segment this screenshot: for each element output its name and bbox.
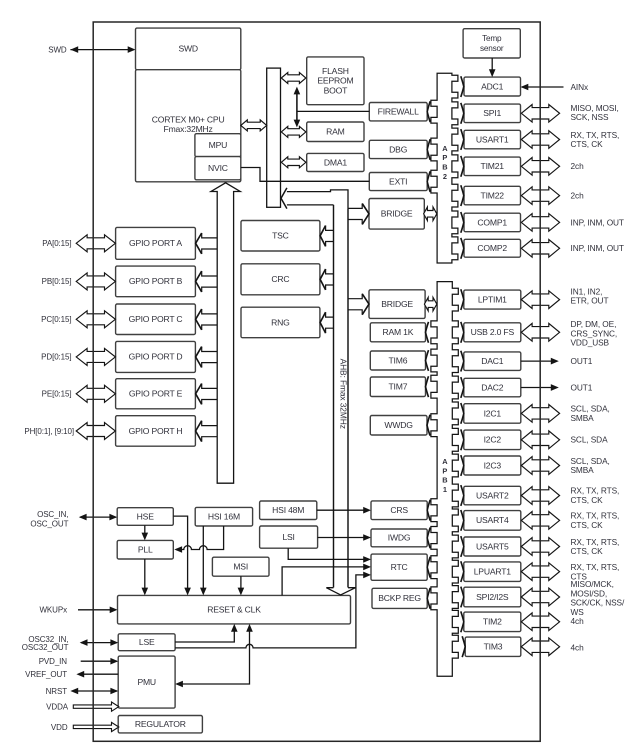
block RTC: [371, 554, 427, 580]
block HSE: [117, 508, 173, 526]
connector IWDG: [427, 528, 430, 549]
label PH[0:1], [9:10]: [24, 427, 74, 436]
wire AHB right wall: [347, 208, 349, 587]
svg-text:TSC: TSC: [272, 231, 289, 241]
svg-text:PA[0:15]: PA[0:15]: [42, 239, 71, 248]
label USART5 pins: [571, 537, 620, 556]
svg-text:DMA1: DMA1: [324, 157, 347, 167]
connector WWDG: [427, 415, 430, 436]
svg-text:2ch: 2ch: [571, 191, 585, 201]
AHB arrow into RESET & CLK: [326, 588, 355, 595]
wire FIREWALL to bus: [297, 110, 369, 112]
svg-text:LSI: LSI: [282, 532, 294, 542]
svg-text:PMU: PMU: [137, 677, 156, 687]
svg-text:PH[0:1], [9:10]: PH[0:1], [9:10]: [24, 427, 74, 436]
connector BCKP REG: [427, 588, 430, 609]
block USART1: [464, 130, 521, 149]
svg-text:GPIO PORT D: GPIO PORT D: [129, 352, 183, 362]
wire HSE to PLL: [142, 525, 149, 540]
block Temp sensor: [463, 29, 520, 58]
svg-text:OUT1: OUT1: [571, 356, 593, 366]
connector DAC1: [461, 351, 464, 372]
bus arrow TIM2 pins: [521, 613, 559, 631]
svg-text:TIM21: TIM21: [481, 161, 505, 171]
svg-text:MPU: MPU: [209, 140, 228, 150]
bus matrix chevron: [281, 188, 287, 209]
svg-text:USART5: USART5: [476, 541, 509, 551]
block RESET & CLK: [118, 595, 351, 624]
GPIO bus arrow into CPU: [211, 183, 240, 483]
connector CRS: [427, 500, 430, 521]
svg-text:HSI 16M: HSI 16M: [208, 512, 240, 522]
svg-text:GPIO PORT H: GPIO PORT H: [129, 426, 183, 436]
svg-text:SCK, NSS: SCK, NSS: [571, 112, 609, 122]
svg-text:ETR, OUT: ETR, OUT: [571, 296, 609, 306]
svg-text:INP, INM, OUT: INP, INM, OUT: [571, 217, 624, 227]
block SPI1: [464, 104, 521, 123]
label COMP1 pins: [571, 217, 624, 227]
block USART4: [464, 511, 521, 531]
block LPTIM1: [464, 290, 521, 309]
block PMU: [118, 656, 175, 708]
label VDDA: [46, 703, 69, 712]
wire Temp sensor to ADC1: [489, 58, 496, 77]
bus arrow BRIDGE to APB2: [424, 207, 437, 221]
svg-text:MSI: MSI: [233, 562, 248, 572]
bus arrow USART2 pins: [521, 487, 559, 505]
svg-text:USART2: USART2: [476, 490, 509, 500]
svg-text:CTS, CK: CTS, CK: [571, 546, 604, 556]
bus arrow TIM3 pins: [521, 638, 559, 656]
bus arrow USB pins: [521, 323, 559, 341]
block PLL: [117, 540, 173, 559]
svg-text:BOOT: BOOT: [324, 85, 349, 95]
svg-text:RTC: RTC: [391, 562, 408, 572]
label SPI1 pins: [571, 103, 619, 122]
connector SPI2/I2S: [461, 587, 464, 608]
connector BRIDGE APB1 from AHB: [348, 294, 369, 315]
APB2 bus bar: [431, 73, 458, 263]
bus arrow USART1 pins: [521, 131, 559, 149]
svg-text:OSC32_OUT: OSC32_OUT: [22, 643, 69, 652]
block SWD: [136, 28, 241, 70]
label TIM3 pins: [571, 642, 585, 652]
svg-text:AINx: AINx: [571, 82, 590, 92]
label OSC32_IN OSC32_OUT: [22, 635, 69, 652]
svg-text:GPIO PORT A: GPIO PORT A: [129, 238, 182, 248]
bus arrow bus matrix to FLASH: [281, 73, 306, 84]
label OSC_IN OSC_OUT: [30, 510, 68, 529]
connector I2C3: [461, 455, 464, 476]
svg-text:SWD: SWD: [48, 45, 67, 54]
block USART2: [464, 486, 521, 505]
wire NVIC to EXTI: [241, 168, 369, 182]
connector EXTI: [427, 171, 430, 192]
wire VREF_OUT from PMU: [76, 671, 118, 678]
wire RESET & CLK to RTC: [282, 564, 371, 596]
svg-text:WWDG: WWDG: [384, 420, 413, 430]
label COMP2 pins: [571, 243, 624, 253]
svg-text:VDD: VDD: [51, 723, 68, 732]
bus arrow LPUART1 pins: [521, 563, 559, 581]
label DAC2 OUT1: [571, 382, 593, 392]
wire NRST to PMU: [70, 688, 118, 695]
label TIM2 pins: [571, 616, 585, 626]
svg-text:INP, INM, OUT: INP, INM, OUT: [571, 243, 624, 253]
VDDA supply arrow: [73, 702, 119, 711]
block TIM22: [464, 186, 521, 205]
label NRST: [46, 687, 68, 696]
wire AINx input to ADC1: [521, 84, 564, 91]
label LPUART1 pins: [571, 562, 620, 581]
svg-text:SCL, SDA: SCL, SDA: [571, 435, 609, 445]
bus arrow TIM22 pins: [521, 187, 559, 205]
svg-text:CORTEX M0+ CPU: CORTEX M0+ CPU: [152, 114, 225, 124]
label PB[0:15]: [42, 277, 72, 286]
block COMP2: [464, 239, 521, 257]
svg-text:2: 2: [443, 172, 447, 181]
bus arrow BRIDGE to APB1: [424, 297, 436, 311]
block RAM 1K: [370, 323, 425, 342]
wire HSI48M to CRS: [317, 507, 371, 514]
bus arrow bus matrix to DMA1: [281, 157, 306, 168]
block LSI: [260, 526, 318, 548]
connector TIM21: [461, 156, 464, 177]
bus arrow COMP2 pins: [521, 240, 559, 258]
label DAC1 OUT1: [571, 356, 593, 366]
bus arrow I2C3 pins: [521, 457, 559, 475]
svg-text:RAM 1K: RAM 1K: [383, 327, 414, 337]
bus arrow SPI1 pins: [521, 105, 559, 123]
svg-text:1: 1: [443, 485, 447, 494]
block GPIO PORT C: [116, 304, 196, 335]
bus arrow I2C2 pins: [521, 431, 559, 449]
svg-text:FLASH: FLASH: [322, 66, 349, 76]
label I2C2 pins: [571, 435, 609, 445]
label AINx: [571, 82, 590, 92]
block ADC1: [464, 77, 521, 96]
block CRS: [371, 501, 427, 520]
svg-text:BCKP REG: BCKP REG: [378, 593, 421, 603]
svg-text:NRST: NRST: [46, 687, 68, 696]
connector USART2: [461, 485, 464, 506]
svg-text:COMP1: COMP1: [477, 217, 507, 227]
connector TIM22: [461, 185, 464, 206]
block I2C3: [464, 456, 521, 475]
svg-text:SPI1: SPI1: [483, 108, 501, 118]
block MSI: [212, 557, 269, 576]
bus arrow GPIO port PD pins: [76, 348, 115, 365]
svg-text:DAC2: DAC2: [481, 382, 504, 392]
block HSI 16M: [195, 507, 252, 526]
svg-text:TIM22: TIM22: [481, 190, 505, 200]
block DMA1: [307, 153, 364, 171]
svg-text:RESET & CLK: RESET & CLK: [207, 605, 261, 615]
block NVIC: [195, 157, 241, 180]
block TIM3: [465, 637, 521, 656]
connector BRIDGE APB2 from AHB: [348, 204, 369, 225]
svg-text:TIM2: TIM2: [483, 617, 502, 627]
svg-text:PD[0:15]: PD[0:15]: [41, 353, 71, 362]
svg-text:LSE: LSE: [139, 637, 155, 647]
bus arrow GPIO port PC pins: [76, 311, 115, 328]
svg-text:VDD_USB: VDD_USB: [571, 338, 610, 348]
connector GPIO PORT B: [196, 271, 218, 292]
connector CRC: [320, 269, 333, 290]
block FLASH EEPROM BOOT: [307, 57, 364, 105]
svg-text:REGULATOR: REGULATOR: [135, 719, 186, 729]
block GPIO PORT B: [116, 266, 196, 297]
svg-text:OSC_IN,: OSC_IN,: [37, 510, 68, 519]
block WWDG: [370, 416, 427, 436]
svg-text:Temp: Temp: [482, 34, 502, 43]
block TSC: [241, 221, 320, 252]
svg-text:TIM6: TIM6: [389, 355, 408, 365]
wire bus matrix to AHB lower: [287, 204, 334, 206]
svg-text:TIM7: TIM7: [389, 382, 408, 392]
block BRIDGE APB2: [369, 199, 424, 230]
svg-text:USART1: USART1: [476, 134, 509, 144]
label PC[0:15]: [41, 315, 71, 324]
block HSI 48M: [260, 501, 317, 520]
connector TIM2: [461, 611, 464, 632]
connector TIM3: [462, 636, 465, 657]
svg-text:B: B: [442, 163, 447, 172]
bus arrow GPIO port PH pins: [76, 423, 115, 440]
bus arrow GPIO port PE pins: [76, 385, 115, 402]
label VDD: [51, 723, 68, 732]
svg-text:RAM: RAM: [326, 127, 345, 137]
svg-text:CTS, CK: CTS, CK: [571, 520, 604, 530]
svg-text:PVD_IN: PVD_IN: [39, 657, 68, 666]
wire LSE to RTC: [175, 572, 371, 648]
svg-text:EXTI: EXTI: [389, 176, 407, 186]
label TIM22 pins: [571, 191, 585, 201]
wire bus matrix to AHB upper: [287, 190, 348, 209]
bus arrow CPU to bus matrix: [241, 120, 267, 131]
svg-text:BRIDGE: BRIDGE: [381, 209, 413, 219]
block LPUART1: [464, 562, 521, 582]
svg-text:TIM3: TIM3: [484, 642, 503, 652]
block TIM21: [464, 157, 521, 176]
bus matrix bar: [267, 68, 281, 207]
svg-text:NVIC: NVIC: [208, 163, 228, 173]
block DBG: [369, 140, 427, 158]
block IWDG: [371, 529, 427, 547]
bus arrow bus matrix to RAM: [281, 126, 306, 137]
svg-text:IWDG: IWDG: [388, 533, 411, 543]
label PVD_IN: [39, 657, 68, 666]
svg-text:CTS, CK: CTS, CK: [571, 139, 604, 149]
wire LSE to RESET & CLK: [175, 624, 238, 642]
block I2C1: [464, 404, 521, 424]
svg-text:USB 2.0 FS: USB 2.0 FS: [471, 327, 515, 337]
connector USART4: [461, 510, 464, 531]
svg-text:VREF_OUT: VREF_OUT: [25, 670, 67, 679]
connector GPIO PORT H: [196, 421, 218, 442]
bus arrow LPTIM1 pins: [521, 291, 559, 309]
block USB 2.0 FS: [464, 323, 521, 342]
block MPU: [195, 134, 241, 157]
svg-text:PE[0:15]: PE[0:15]: [42, 390, 72, 399]
VDD supply arrow: [73, 722, 119, 731]
svg-text:DAC1: DAC1: [481, 356, 504, 366]
svg-text:FIREWALL: FIREWALL: [378, 107, 419, 117]
svg-text:GPIO PORT B: GPIO PORT B: [129, 276, 183, 286]
label SPI2/I2S pins: [571, 579, 625, 617]
wire HSI16M to PLL: [174, 526, 223, 553]
svg-text:SMBA: SMBA: [571, 465, 595, 475]
wire OSC32 to LSE: [80, 639, 119, 646]
svg-text:WKUPx: WKUPx: [39, 606, 67, 615]
block CRC: [241, 264, 320, 295]
svg-text:GPIO PORT C: GPIO PORT C: [129, 314, 183, 324]
svg-text:B: B: [442, 476, 447, 485]
connector USART1: [461, 129, 464, 150]
bus arrow COMP1 pins: [521, 214, 559, 232]
connector DBG: [427, 139, 430, 160]
block FIREWALL: [369, 103, 427, 121]
label PD[0:15]: [41, 353, 71, 362]
svg-text:4ch: 4ch: [571, 642, 585, 652]
label I2C1 pins: [571, 404, 610, 423]
svg-text:P: P: [442, 153, 447, 162]
bus arrow USART4 pins: [521, 512, 559, 530]
wire PMU to RESET & CLK: [175, 624, 253, 687]
svg-text:OSC_OUT: OSC_OUT: [30, 519, 68, 528]
svg-text:GPIO PORT E: GPIO PORT E: [129, 389, 183, 399]
block SPI2/I2S: [464, 587, 521, 607]
bus arrow USART5 pins: [521, 538, 559, 556]
block EXTI: [369, 173, 427, 191]
svg-text:CRS: CRS: [390, 505, 408, 515]
connector RAM 1K: [426, 322, 429, 343]
block BRIDGE APB1: [369, 290, 425, 319]
block RAM: [307, 122, 364, 142]
label LPTIM1 pins: [571, 286, 609, 305]
block TIM2: [464, 612, 521, 632]
svg-text:EEPROM: EEPROM: [317, 76, 353, 86]
svg-text:AHB: Fmax 32MHz: AHB: Fmax 32MHz: [338, 359, 348, 429]
svg-text:SMBA: SMBA: [571, 413, 595, 423]
connector LPUART1: [461, 561, 464, 582]
label PA[0:15]: [42, 239, 71, 248]
connector GPIO PORT E: [196, 384, 218, 405]
block GPIO PORT A: [116, 227, 196, 259]
svg-text:BRIDGE: BRIDGE: [381, 299, 413, 309]
block DAC1: [464, 352, 521, 371]
block RNG: [241, 307, 320, 338]
svg-text:PC[0:15]: PC[0:15]: [41, 315, 71, 324]
wire SWD debug port: [70, 46, 135, 53]
block GPIO PORT D: [116, 341, 196, 372]
APB1 bus bar: [431, 282, 458, 677]
svg-text:OUT1: OUT1: [571, 382, 593, 392]
block BCKP REG: [372, 588, 427, 608]
block CORTEX M0+ CPU: [136, 70, 241, 182]
bus arrow GPIO port PA pins: [76, 235, 115, 252]
svg-text:I2C2: I2C2: [484, 435, 502, 445]
bus arrow GPIO port PB pins: [76, 273, 115, 290]
block TIM6: [370, 351, 425, 370]
wire MSI to RESET & CLK: [238, 576, 245, 595]
connector USART5: [461, 536, 464, 557]
svg-text:I2C3: I2C3: [484, 460, 502, 470]
connector RTC: [427, 557, 430, 578]
svg-text:2ch: 2ch: [571, 161, 585, 171]
svg-text:COMP2: COMP2: [477, 243, 507, 253]
svg-text:ADC1: ADC1: [481, 81, 504, 91]
connector TIM6: [426, 350, 429, 371]
label PE[0:15]: [42, 390, 72, 399]
block COMP1: [464, 213, 521, 232]
svg-text:HSE: HSE: [137, 511, 155, 521]
connector COMP1: [461, 212, 464, 233]
svg-text:Fmax:32MHz: Fmax:32MHz: [164, 124, 213, 134]
svg-text:CTS, CK: CTS, CK: [571, 495, 604, 505]
svg-text:P: P: [442, 466, 447, 475]
block LSE: [118, 634, 175, 651]
svg-text:SPI2/I2S: SPI2/I2S: [476, 592, 509, 602]
label WKUPx: [39, 606, 67, 615]
label USART1 pins: [571, 130, 620, 149]
svg-text:PLL: PLL: [138, 545, 153, 555]
wire HSE to RESET & CLK: [173, 516, 191, 595]
label TIM21 pins: [571, 161, 585, 171]
svg-text:DBG: DBG: [389, 144, 408, 154]
AHB bus label: [338, 359, 348, 429]
connector I2C1: [461, 403, 464, 424]
connector ADC1: [461, 76, 464, 97]
label I2C3 pins: [571, 456, 610, 475]
block TIM7: [370, 377, 425, 397]
wire PLL to RESET & CLK: [142, 559, 149, 595]
outer system boundary: [93, 22, 540, 741]
bus arrow SPI2/I2S pins: [521, 588, 559, 606]
connector GPIO PORT D: [196, 347, 218, 368]
connector GPIO PORT A: [196, 233, 218, 254]
connector GPIO PORT C: [196, 309, 218, 330]
svg-text:PB[0:15]: PB[0:15]: [42, 277, 72, 286]
connector DAC2: [461, 377, 464, 398]
svg-text:A: A: [442, 144, 448, 153]
svg-text:VDDA: VDDA: [46, 703, 69, 712]
block DAC2: [464, 378, 521, 397]
label CORTEX M0+ CPU: [152, 114, 225, 134]
wire LSI to IWDG: [318, 534, 371, 541]
wire FLASH-RAM vertical arrow: [294, 87, 301, 128]
connector USB: [461, 322, 464, 343]
connector TIM7: [426, 376, 429, 397]
connector I2C2: [461, 429, 464, 450]
block USART5: [464, 537, 521, 556]
svg-text:USART4: USART4: [476, 515, 509, 525]
block GPIO PORT H: [116, 416, 196, 447]
label VREF_OUT: [25, 670, 67, 679]
label USB pins: [571, 319, 618, 348]
connector SPI1: [461, 103, 464, 124]
label USART2 pins: [571, 486, 620, 505]
svg-text:HSI 48M: HSI 48M: [272, 505, 304, 515]
wire PVD_IN to PMU: [81, 658, 119, 665]
wire DAC2 OUT1: [521, 384, 559, 391]
wire AHB left wall: [333, 205, 335, 588]
bus arrow TIM21 pins: [521, 158, 559, 176]
connector COMP2: [461, 238, 464, 259]
block REGULATOR: [118, 716, 202, 733]
block GPIO PORT E: [116, 379, 196, 409]
svg-text:RNG: RNG: [271, 317, 290, 327]
